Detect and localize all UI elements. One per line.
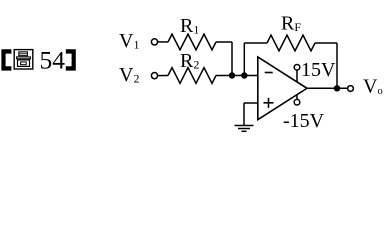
op-amp non-inverting input plus sign xyxy=(264,98,274,108)
wire non-inverting input to ground xyxy=(244,102,258,104)
positive supply terminal (open circle) xyxy=(294,65,300,71)
negative supply pin stub xyxy=(296,95,298,100)
wire RF down to output node xyxy=(336,43,338,88)
resistor R2 xyxy=(168,68,216,84)
wire R1 to corner xyxy=(216,41,232,43)
caption CJK character 圖 xyxy=(14,50,33,69)
svg-text:-15V: -15V xyxy=(283,110,325,132)
svg-text:54: 54 xyxy=(40,45,66,74)
wire summing node up to RF xyxy=(243,43,245,76)
wire op-amp output xyxy=(307,87,348,89)
output terminal Vo (open circle) xyxy=(348,86,354,92)
junction dot at summing node (RF branch) xyxy=(241,72,247,78)
caption left bracket of 【圖 54】 xyxy=(1,49,11,70)
op-amp inverting input minus sign xyxy=(265,72,273,74)
wire corner down to summing node xyxy=(231,42,233,76)
resistor RF xyxy=(267,35,315,51)
negative supply terminal (open circle) xyxy=(294,99,300,105)
ground symbol xyxy=(235,126,254,132)
wire RF left lead xyxy=(244,42,267,44)
wire down to ground xyxy=(243,103,245,126)
input terminal V1 (open circle) xyxy=(151,39,157,45)
junction dot at summing node (R1 branch) xyxy=(229,72,235,78)
junction dot output node xyxy=(334,85,340,91)
op-amp U1 triangle xyxy=(258,57,307,120)
svg-text:15V: 15V xyxy=(301,59,336,81)
wire V2 terminal to R2 xyxy=(157,75,168,77)
input terminal V2 (open circle) xyxy=(151,73,157,79)
caption right bracket of 【圖 54】 xyxy=(66,49,76,70)
wire R2 to op-amp inverting input xyxy=(216,75,258,77)
wire V1 terminal to R1 xyxy=(157,41,168,43)
wire RF right lead xyxy=(315,42,337,44)
positive supply pin stub xyxy=(296,70,298,82)
resistor R1 xyxy=(168,34,216,50)
